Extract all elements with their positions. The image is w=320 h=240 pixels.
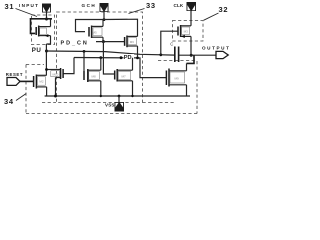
svg-text:OUTPUT: OUTPUT [202, 46, 230, 51]
svg-text:M3: M3 [184, 30, 188, 34]
svg-text:31: 31 [5, 2, 15, 11]
dashed box 34 bottom edge [26, 113, 197, 115]
transistor M7 (gate PD_CN) [115, 69, 133, 82]
dashed box 32 (output transistor box) [173, 21, 204, 42]
node junction VSS stem on rail [118, 95, 121, 98]
transistor M8 (PD pull-down, gate PU) [84, 51, 101, 82]
svg-text:PD_CN: PD_CN [61, 40, 89, 46]
node junction M8 source on rail [100, 95, 102, 97]
dashed box 34 left edge [25, 65, 27, 114]
transistor M2 (reset) [34, 75, 47, 89]
node junction M3 source on OUTPUT [190, 54, 193, 57]
node junction GCH [103, 18, 106, 21]
svg-text:M10: M10 [53, 73, 59, 77]
wire M3 source down to OUTPUT line [190, 36, 192, 55]
INPUT pad [42, 4, 51, 13]
PD line [74, 58, 166, 78]
dashed box 34 top edge right segment (around transistor M9) [158, 60, 196, 62]
capacitor C1 left plate [174, 47, 176, 63]
svg-text:VSS: VSS [105, 103, 115, 108]
svg-text:33: 33 [146, 1, 156, 10]
wire CLK pad stem down to transistor M3 drain [190, 11, 192, 26]
wire PU vertical [45, 44, 47, 75]
dashed box 33 (pull-down control circuit) [57, 12, 143, 103]
RESET port arrow [7, 78, 20, 86]
leader line 33 [129, 9, 145, 14]
node junction M6 source on PD [136, 57, 139, 60]
node junction on PD [120, 56, 123, 59]
transistor M9 (output pull-down) [166, 69, 186, 87]
svg-text:M9: M9 [175, 77, 179, 81]
wire M6 source down to PD line [137, 46, 139, 58]
svg-text:M5: M5 [93, 30, 97, 34]
wire OUTPUT down L to M9 drain [187, 55, 195, 63]
svg-text:M8: M8 [92, 74, 96, 78]
wire M1 source down to PU [46, 36, 50, 44]
OUTPUT port arrow [216, 51, 228, 58]
dashed box 33 bottom extension left [42, 102, 56, 104]
node junction M7 source on rail [131, 95, 133, 97]
node junction M8 drain on PD [99, 56, 102, 59]
svg-text:M2: M2 [39, 80, 43, 84]
svg-text:34: 34 [4, 97, 14, 106]
wire M1 drain up [50, 19, 52, 27]
wire M7 source down to VSS [132, 81, 134, 96]
wire M10 source down to VSS rail [55, 78, 57, 97]
PD label [124, 54, 135, 61]
dashed box 34 right edge [196, 61, 198, 114]
transistor M5 (GCH diode to PD_CN) [89, 26, 103, 39]
wire RESET to M2 gate [20, 80, 33, 82]
wire PD_CN line to M6 gate [96, 41, 125, 43]
capacitor C1 right plate [178, 47, 180, 63]
wire M3 gate riser [161, 31, 178, 55]
wire GCH left branch to M5 gate [76, 20, 105, 32]
wire PU horizontal line to capacitor [46, 51, 174, 55]
svg-text:C: C [170, 41, 173, 46]
wire INPUT pad stem [46, 13, 48, 20]
node PD_CN junction [102, 40, 105, 43]
transistor M1 (input, diode-connected) [36, 26, 50, 38]
svg-text:PD: PD [124, 55, 132, 61]
node PU junction [45, 50, 48, 53]
VSS pad (ground pad, V notch up) [115, 102, 125, 112]
svg-text:32: 32 [219, 5, 229, 14]
transistor M10 (PU pull-down, mirrored) [47, 68, 64, 79]
svg-text:M7: M7 [122, 74, 126, 78]
VSS rail [45, 95, 190, 97]
svg-text:GCH: GCH [82, 3, 97, 8]
wire M5 drain up to GCH [102, 20, 104, 27]
dashed box 31 (input circuit) [32, 15, 55, 45]
leader line 31 [16, 9, 38, 17]
wire M9 source down to VSS [186, 85, 188, 96]
leader line 34 [16, 94, 26, 101]
svg-text:CLK: CLK [174, 3, 184, 8]
svg-text:M6: M6 [130, 40, 134, 44]
wire M9 drain vertical [186, 63, 188, 70]
dashed box 34 top edge left segment [26, 64, 44, 66]
node junction at INPUT [45, 18, 48, 21]
GCH pad [100, 3, 109, 12]
transistor M6 (PD_CN to PD from GCH) [125, 36, 138, 48]
svg-text:PU: PU [32, 47, 42, 54]
wire GCH right branch to M7 drain [104, 19, 138, 36]
leader line 32 [204, 13, 219, 20]
node junction M10 drain on PU vertical [45, 68, 48, 71]
svg-text:INPUT: INPUT [19, 3, 39, 8]
dashed box 33 bottom extension right [143, 102, 175, 104]
node junction M3 gate tap [159, 53, 162, 56]
wire M2 source down to VSS rail [46, 87, 48, 96]
wire M8 source down to VSS [100, 81, 102, 96]
node junction M6 gate tap [83, 50, 86, 53]
wire OUTPUT line [179, 54, 216, 56]
CLK pad [187, 2, 197, 11]
node junction M10 source on rail [54, 95, 57, 98]
wire PD_CN down to M7b gate [103, 42, 114, 74]
wire PD left corner down to M10 gate [63, 58, 74, 74]
wire input top rail [31, 19, 53, 34]
wire M8 drain up to PD [100, 58, 102, 70]
transistor M3 (output, CLK) [178, 25, 191, 38]
wire M5 source down to PD_CN [102, 37, 104, 41]
wire GCH pad stem [103, 12, 105, 20]
wire M7 drain up to PD [132, 58, 134, 70]
svg-text:RESET: RESET [6, 72, 23, 77]
wire VSS pad stem [118, 96, 120, 103]
